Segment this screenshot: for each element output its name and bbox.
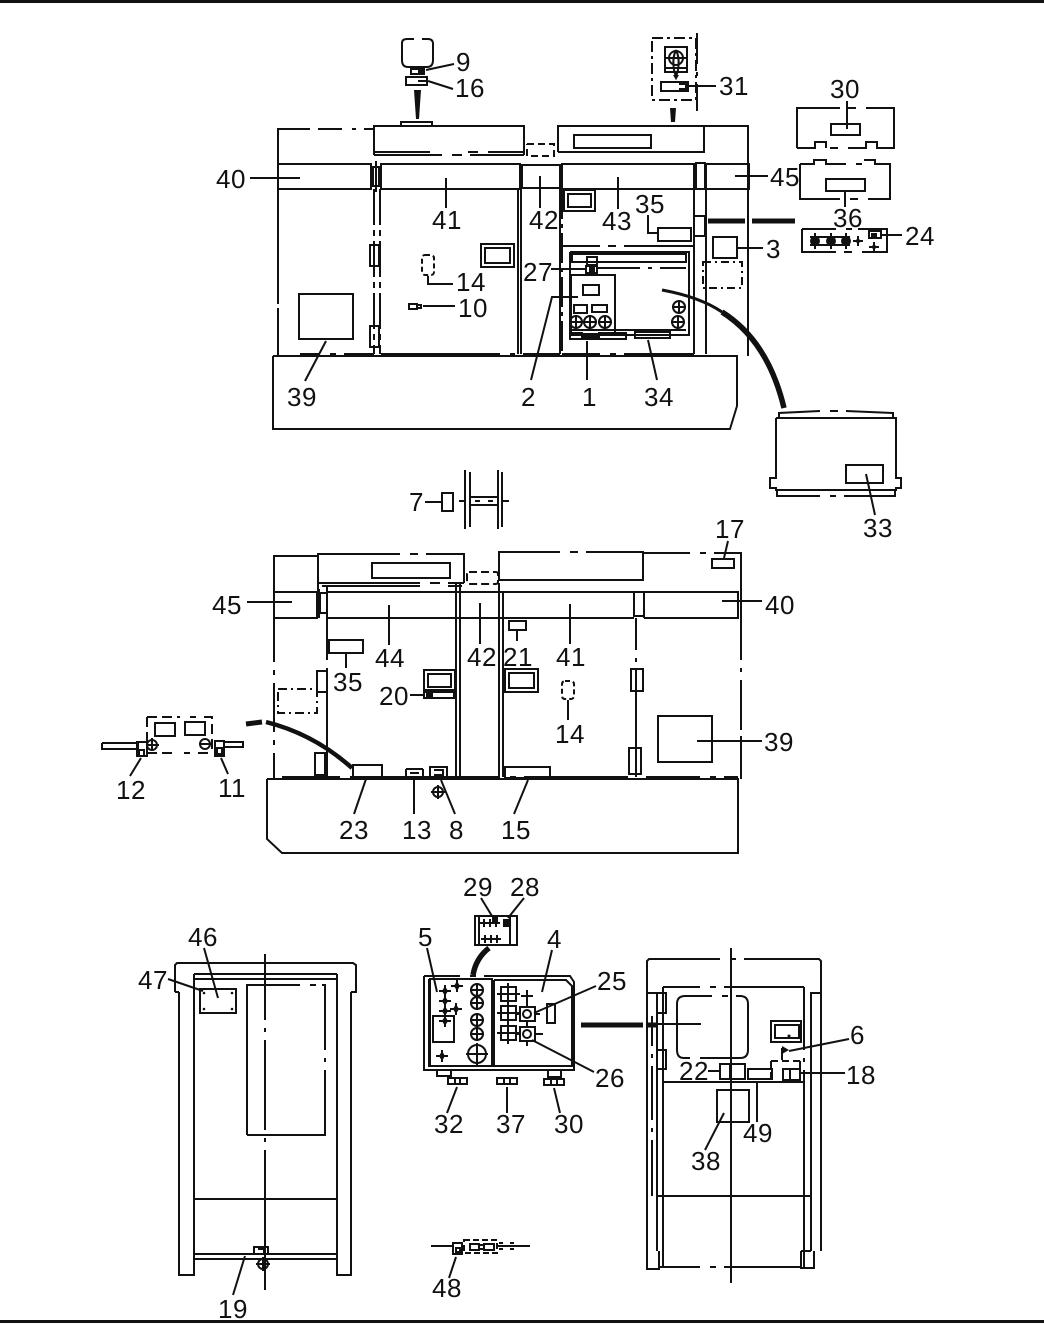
- callout 48: [449, 1257, 456, 1278]
- callout 16: [428, 81, 453, 89]
- skid base: [273, 356, 737, 429]
- right flat roof section: [643, 553, 741, 592]
- item 12 handle left: [102, 743, 138, 749]
- item 27 fasteners: [587, 257, 597, 265]
- callout 49: [756, 1082, 758, 1122]
- door 43 left edge: [561, 189, 563, 354]
- heavy dashed pointer to item 36: [708, 219, 795, 224]
- svg-text:24: 24: [905, 221, 935, 251]
- svg-text:26: 26: [595, 1063, 625, 1093]
- callout 3: [738, 247, 763, 249]
- callout 22: [708, 1070, 719, 1072]
- three breaker knobs: [569, 315, 612, 329]
- dashed locator on left post: [278, 689, 317, 713]
- item 8 clamp: [430, 767, 447, 777]
- svg-text:27: 27: [523, 257, 553, 287]
- callout 29: [481, 898, 492, 916]
- item 7 rail section: [459, 470, 509, 529]
- right door: feet: [647, 1251, 814, 1269]
- item 33 battery box lid: [779, 411, 893, 418]
- right side knobs: [671, 300, 686, 329]
- control panel assy: item 29/28 connector box: [475, 916, 517, 945]
- item 36 loose panel: [800, 160, 890, 199]
- left edge lower (dash-dot): [273, 618, 275, 779]
- left door: inner panel: [194, 978, 337, 980]
- door 43 right edge: [694, 165, 706, 354]
- left door (39 area) bottom edge: [278, 189, 300, 356]
- bottom page rule: [0, 1320, 1044, 1323]
- callout 11: [221, 758, 228, 774]
- right body edge: [740, 592, 742, 779]
- svg-text:23: 23: [339, 815, 369, 845]
- dashed box below item 3: [703, 262, 742, 288]
- svg-text:3: 3: [766, 234, 781, 264]
- left door: center line: [264, 954, 266, 1290]
- callout 18: [801, 1072, 845, 1074]
- door 41 vent double rect: [505, 669, 538, 692]
- svg-text:19: 19: [218, 1294, 248, 1324]
- right door: top bar inner: [663, 986, 804, 988]
- callout 1: [586, 341, 588, 380]
- callout 12: [130, 758, 141, 776]
- callout 15: [514, 780, 528, 814]
- callout 24: [882, 234, 902, 236]
- item 35 latch plate (top view): [658, 228, 691, 241]
- callout 37: [506, 1087, 508, 1113]
- two small plates: [574, 305, 587, 313]
- svg-text:29: 29: [463, 872, 493, 902]
- band center segment (item 41 top): [381, 164, 520, 189]
- callout 42 mid: [479, 603, 481, 644]
- callout 2: [531, 297, 578, 380]
- enclosure right edge: [747, 165, 749, 356]
- callout 41 top: [445, 178, 447, 208]
- item 33 battery box: [770, 418, 901, 490]
- svg-text:41: 41: [556, 642, 586, 672]
- meter in control box: [583, 285, 599, 295]
- item 33 data plate: [846, 465, 883, 483]
- callout 41 mid: [569, 604, 571, 644]
- svg-text:25: 25: [597, 966, 627, 996]
- item 31 key switch dashed box: [652, 38, 696, 100]
- callout 30: [846, 101, 848, 129]
- item 9 fuel cap: [402, 39, 433, 67]
- right panel slot: [547, 1004, 555, 1023]
- item 22 latch: [720, 1064, 745, 1079]
- item 36 inner rect: [826, 179, 865, 191]
- callout 31: [689, 85, 716, 87]
- item 31 switch plate: [665, 47, 687, 72]
- svg-text:5: 5: [418, 922, 433, 952]
- svg-text:11: 11: [218, 773, 246, 803]
- svg-text:40: 40: [216, 164, 246, 194]
- item 14 dashed keyhole: [562, 681, 574, 699]
- svg-text:49: 49: [743, 1118, 773, 1148]
- item 20 sight gauge: [424, 670, 455, 690]
- item 8 screw: [431, 785, 445, 799]
- roof raised panel left: [374, 126, 524, 155]
- right door: inner panel: [663, 987, 804, 1267]
- item 32 bracket: [448, 1078, 467, 1084]
- item 18 dashed outline: [771, 1061, 800, 1080]
- callout 47: [168, 979, 203, 991]
- svg-text:20: 20: [379, 681, 409, 711]
- hinge lower: [370, 326, 379, 347]
- band divider post left: [371, 161, 381, 192]
- item 31 slot: [661, 82, 688, 91]
- svg-text:35: 35: [635, 189, 665, 219]
- heavy cable stub: [473, 948, 489, 975]
- item 12/11 latch assembly dashed body: [147, 717, 212, 753]
- pointer line into window: [652, 1023, 701, 1025]
- callout 46: [204, 948, 218, 998]
- svg-text:31: 31: [719, 71, 749, 101]
- hinge upper: [370, 245, 379, 266]
- callout 40 top: [250, 177, 300, 179]
- callout 13: [413, 780, 415, 814]
- heavy arrow below 31: [670, 108, 676, 122]
- callout 45 mid: [247, 601, 292, 603]
- callout 39 top: [305, 341, 326, 381]
- svg-text:35: 35: [333, 667, 363, 697]
- svg-text:39: 39: [764, 727, 794, 757]
- item 30 bracket: [544, 1079, 564, 1085]
- item 19 latch: [254, 1247, 268, 1254]
- callout 14 top: [428, 276, 453, 284]
- item 7 mounting clip: [442, 493, 453, 511]
- left panel indicators: [436, 980, 463, 1062]
- callout 4: [542, 950, 552, 992]
- roof vent rect: [372, 563, 450, 578]
- svg-text:12: 12: [116, 775, 146, 805]
- callout 36: [844, 191, 846, 207]
- svg-text:45: 45: [770, 162, 800, 192]
- roof vent rect right: [574, 135, 651, 148]
- enclosure top view: left body outline: [278, 129, 310, 164]
- left post band segment: [274, 592, 317, 618]
- item 24 control box strip: [802, 229, 887, 252]
- svg-text:18: 18: [846, 1060, 876, 1090]
- svg-text:30: 30: [554, 1109, 584, 1139]
- svg-text:14: 14: [555, 719, 585, 749]
- skid base rear: [267, 779, 738, 853]
- roof raised panel right: [499, 552, 643, 580]
- svg-text:15: 15: [501, 815, 531, 845]
- item 31 key: [669, 51, 683, 65]
- left panel knob column: [466, 983, 488, 1065]
- svg-text:42: 42: [529, 205, 559, 235]
- item 47 data plate: [200, 989, 236, 1013]
- item 31 boundary line: [696, 33, 698, 111]
- band right segment (item 45): [705, 164, 749, 189]
- band hinge right: [634, 592, 644, 616]
- door divider with hinges: [374, 189, 380, 354]
- svg-text:1: 1: [582, 382, 597, 412]
- door 43 small vent double rect: [564, 190, 595, 211]
- divider 44/42: [456, 583, 460, 777]
- svg-text:10: 10: [458, 293, 488, 323]
- item 3 receptacle: [713, 237, 737, 258]
- item 10 small fastener: [409, 304, 421, 309]
- svg-text:16: 16: [455, 73, 485, 103]
- window opening: [247, 985, 325, 1135]
- controls shelf line: [663, 1081, 804, 1083]
- vent grille item 39: [299, 294, 353, 339]
- right door: vent item 6 area: [771, 1021, 801, 1042]
- heavy dashed pointer to right door: [581, 1023, 657, 1028]
- divider 42/41: [499, 583, 503, 777]
- svg-text:6: 6: [850, 1020, 865, 1050]
- callout 32: [447, 1087, 457, 1113]
- band right segment: [644, 592, 738, 618]
- latch windows: [155, 723, 175, 736]
- right door: outer frame: [647, 959, 821, 1251]
- svg-text:34: 34: [644, 382, 674, 412]
- svg-text:30: 30: [830, 74, 860, 104]
- callout 5: [427, 948, 437, 992]
- hinge right mid: [631, 669, 643, 691]
- callout 10 top: [423, 305, 455, 307]
- svg-text:21: 21: [503, 642, 533, 672]
- door bottoms dash-dot: [300, 353, 694, 355]
- door 44 left edge: [326, 618, 328, 777]
- svg-text:4: 4: [547, 924, 562, 954]
- item 9 neck: [411, 69, 424, 74]
- lifting band left segment (item 40): [278, 164, 371, 189]
- item 17 latch: [712, 559, 734, 568]
- center door panel vent (double rect): [481, 244, 514, 267]
- callout 39 mid: [697, 740, 762, 742]
- svg-text:46: 46: [188, 922, 218, 952]
- callout 42 top: [539, 176, 541, 208]
- callout 35 mid: [345, 654, 347, 668]
- callout 27 top: [551, 268, 585, 270]
- band divider hinge left: [319, 586, 327, 621]
- callout 17: [724, 541, 728, 558]
- left door: outer frame: [175, 963, 356, 992]
- roof raised panel right: [558, 126, 704, 152]
- right door: center line: [730, 948, 732, 1283]
- mid divider verticals (42 panel): [521, 189, 560, 354]
- item 15 sill plate: [505, 767, 550, 778]
- item 24 terminals: [810, 233, 879, 252]
- hinge left mid: [317, 671, 327, 692]
- rear view: left corner post: [274, 556, 317, 618]
- item 49 plate: [748, 1069, 772, 1079]
- inner control box (item 2): [571, 275, 615, 335]
- svg-text:43: 43: [602, 206, 632, 236]
- callout 26: [532, 1040, 594, 1072]
- item 39 vent grille rear: [658, 716, 712, 762]
- band hinge right: [696, 163, 705, 189]
- svg-text:38: 38: [691, 1146, 721, 1176]
- right door: window: [677, 996, 748, 1058]
- callout 28: [508, 898, 524, 918]
- left post dash-dot line: [651, 1016, 653, 1196]
- svg-text:33: 33: [863, 513, 893, 543]
- item 38 box: [717, 1090, 749, 1122]
- svg-text:42: 42: [467, 642, 497, 672]
- item 30 loose panel: [797, 108, 894, 148]
- svg-text:45: 45: [212, 590, 242, 620]
- callout 23: [354, 779, 366, 814]
- panel feet: [437, 1070, 561, 1077]
- item 21 fastener: [509, 621, 526, 630]
- item 33 bottom strip: [777, 490, 895, 496]
- band right of 42: [562, 164, 694, 189]
- hinge right bottom: [629, 748, 641, 774]
- svg-text:47: 47: [138, 965, 168, 995]
- left door: posts: [179, 974, 351, 1275]
- item 30 inner rect: [831, 124, 860, 135]
- svg-text:13: 13: [402, 815, 432, 845]
- svg-text:17: 17: [715, 514, 745, 544]
- left door: bottom rails: [194, 1199, 337, 1259]
- callout 33: [866, 474, 875, 515]
- svg-text:41: 41: [432, 205, 462, 235]
- item 4 right panel: [494, 980, 572, 1066]
- roof filler tab: [401, 122, 432, 126]
- door bottoms dash-dot: [282, 776, 738, 778]
- callout 43 top: [617, 177, 619, 209]
- hinge right door: [694, 216, 705, 236]
- svg-text:44: 44: [375, 643, 405, 673]
- band mid (item 42 area): [518, 164, 560, 354]
- right corner post: [704, 126, 748, 165]
- heavy arrow item 9/16 to roof: [414, 90, 421, 119]
- callout 20: [410, 694, 423, 696]
- callout 44: [388, 605, 390, 645]
- item 48 rod assembly: [431, 1245, 530, 1247]
- svg-text:36: 36: [833, 203, 863, 233]
- roof middle dashed vent: [527, 144, 554, 156]
- callout 40 mid: [722, 600, 762, 602]
- svg-text:22: 22: [679, 1056, 709, 1086]
- control cutout outer: [561, 245, 695, 247]
- item 11 handle right: [199, 739, 212, 749]
- item 5 left panel: [430, 979, 492, 1066]
- top page rule: [0, 0, 1044, 3]
- right panel breakers: [497, 983, 543, 1046]
- callout 7: [425, 501, 441, 503]
- callout 34: [648, 340, 657, 380]
- svg-text:7: 7: [409, 487, 424, 517]
- svg-text:40: 40: [765, 590, 795, 620]
- item 35 latch plate: [329, 640, 363, 653]
- callout 9: [426, 64, 454, 70]
- item 23 latch bottom: [353, 765, 382, 777]
- right door: hinges: [657, 993, 666, 1013]
- left panel meter: [433, 1016, 454, 1042]
- callout 6: [789, 1039, 849, 1051]
- control panel top band: [572, 254, 686, 262]
- item 13 fastener: [406, 769, 423, 777]
- svg-text:32: 32: [434, 1109, 464, 1139]
- item 16 gasket: [406, 77, 427, 85]
- callout 35 top: [648, 215, 658, 233]
- svg-text:28: 28: [510, 872, 540, 902]
- item 6 pin flag: [781, 1048, 783, 1060]
- lower rail: [657, 1195, 811, 1197]
- callout 45 top: [735, 175, 768, 177]
- item 37 bracket: [497, 1078, 517, 1084]
- callout 14 mid: [567, 700, 569, 720]
- enclosure left edge (dash-dot): [277, 189, 279, 356]
- door divider 41 right (dash-dot): [635, 618, 637, 777]
- band over door 44: [327, 592, 634, 618]
- roof raised panel left: [318, 554, 464, 592]
- callout 25: [534, 986, 596, 1013]
- small dashed vent on roof: [467, 572, 498, 584]
- svg-text:2: 2: [521, 382, 536, 412]
- callout 30 bottom: [554, 1088, 560, 1113]
- panel outer box: [424, 976, 574, 1070]
- svg-text:37: 37: [496, 1109, 526, 1139]
- svg-text:8: 8: [449, 815, 464, 845]
- hinge left bottom: [315, 753, 325, 775]
- item 18 latch: [783, 1069, 800, 1080]
- bottom sill of cutout: [569, 329, 686, 331]
- door swing heavy arc: [246, 722, 262, 724]
- callout 38: [705, 1113, 724, 1150]
- callout 8: [441, 780, 455, 814]
- svg-text:39: 39: [287, 382, 317, 412]
- right door: bottom dash-dot: [659, 1266, 801, 1268]
- item 24 fastener: [869, 231, 881, 238]
- heavy cable arc to battery 33: [662, 290, 722, 312]
- svg-text:48: 48: [432, 1273, 462, 1303]
- callout 19: [233, 1256, 245, 1295]
- item 14 dashed keyhole: [422, 255, 434, 275]
